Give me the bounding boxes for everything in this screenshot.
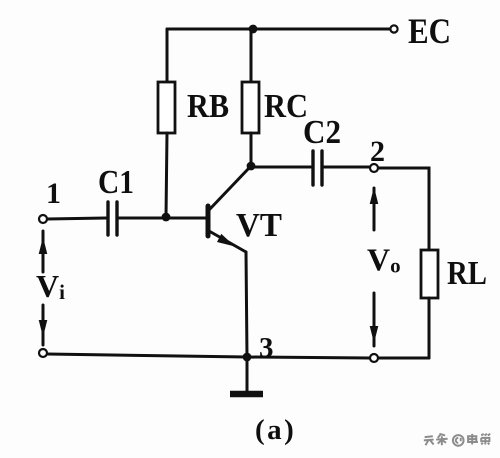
wire bottom rail left	[47, 354, 247, 357]
wire bottom rail right	[247, 357, 370, 358]
wire C1 to base	[119, 217, 206, 220]
capacitor C1	[108, 202, 117, 235]
resistor RC	[242, 82, 259, 133]
svg-text:RL: RL	[447, 255, 487, 292]
ground bar	[230, 391, 263, 398]
svg-text:2: 2	[370, 135, 385, 168]
terminal node 2	[370, 164, 378, 172]
Vo arrow shaft top	[373, 188, 376, 230]
Vi arrowhead up	[39, 237, 48, 254]
wire node 2 to RL branch	[378, 168, 429, 250]
junction collector node	[247, 162, 256, 171]
junction node 3	[243, 353, 252, 362]
svg-text:C1: C1	[98, 164, 134, 201]
svg-text:RB: RB	[187, 88, 229, 125]
svg-text:(a): (a)	[255, 414, 296, 446]
resistor RB	[158, 82, 175, 133]
emitter arrowhead	[217, 234, 235, 247]
Vo arrow shaft bottom	[373, 293, 376, 346]
terminal bottom left	[39, 349, 47, 357]
svg-text:1: 1	[46, 177, 61, 210]
transistor VT base bar	[206, 206, 211, 236]
wire RC branch bottom	[250, 133, 253, 166]
capacitor C2	[313, 151, 322, 185]
Vo arrowhead up	[370, 187, 379, 204]
ground stub	[246, 357, 249, 392]
svg-text:C2: C2	[303, 114, 341, 151]
svg-text:EC: EC	[408, 11, 451, 51]
svg-text:3: 3	[259, 332, 274, 364]
wire RB branch bottom	[166, 133, 167, 217]
svg-text:RC: RC	[264, 88, 308, 125]
wire C2 to node 2	[324, 166, 370, 169]
terminal bottom Vo	[370, 354, 378, 362]
svg-text:VT: VT	[236, 207, 282, 244]
wire RC branch top	[250, 29, 253, 82]
resistor RL	[421, 250, 438, 298]
Vi arrow shaft bottom	[42, 305, 45, 345]
wire RL bottom	[428, 298, 431, 358]
junction top rail RC	[249, 25, 258, 34]
wire bottom rail to RL	[378, 357, 429, 360]
wire top rail	[167, 28, 395, 31]
junction base node	[162, 213, 171, 222]
transistor VT emitter line	[209, 231, 246, 252]
wire collector node to C2	[251, 166, 311, 169]
terminal input 1	[39, 215, 47, 223]
transistor VT collector line	[209, 167, 250, 210]
wire emitter down	[246, 252, 247, 357]
wire RB branch top	[166, 29, 169, 82]
Vo arrowhead down	[370, 326, 379, 343]
terminal EC	[390, 25, 397, 32]
Vi arrowhead down	[39, 320, 48, 337]
watermark toutiao dianchao	[424, 434, 490, 446]
wire input to C1	[47, 218, 106, 219]
Vi arrow shaft top	[42, 231, 45, 272]
